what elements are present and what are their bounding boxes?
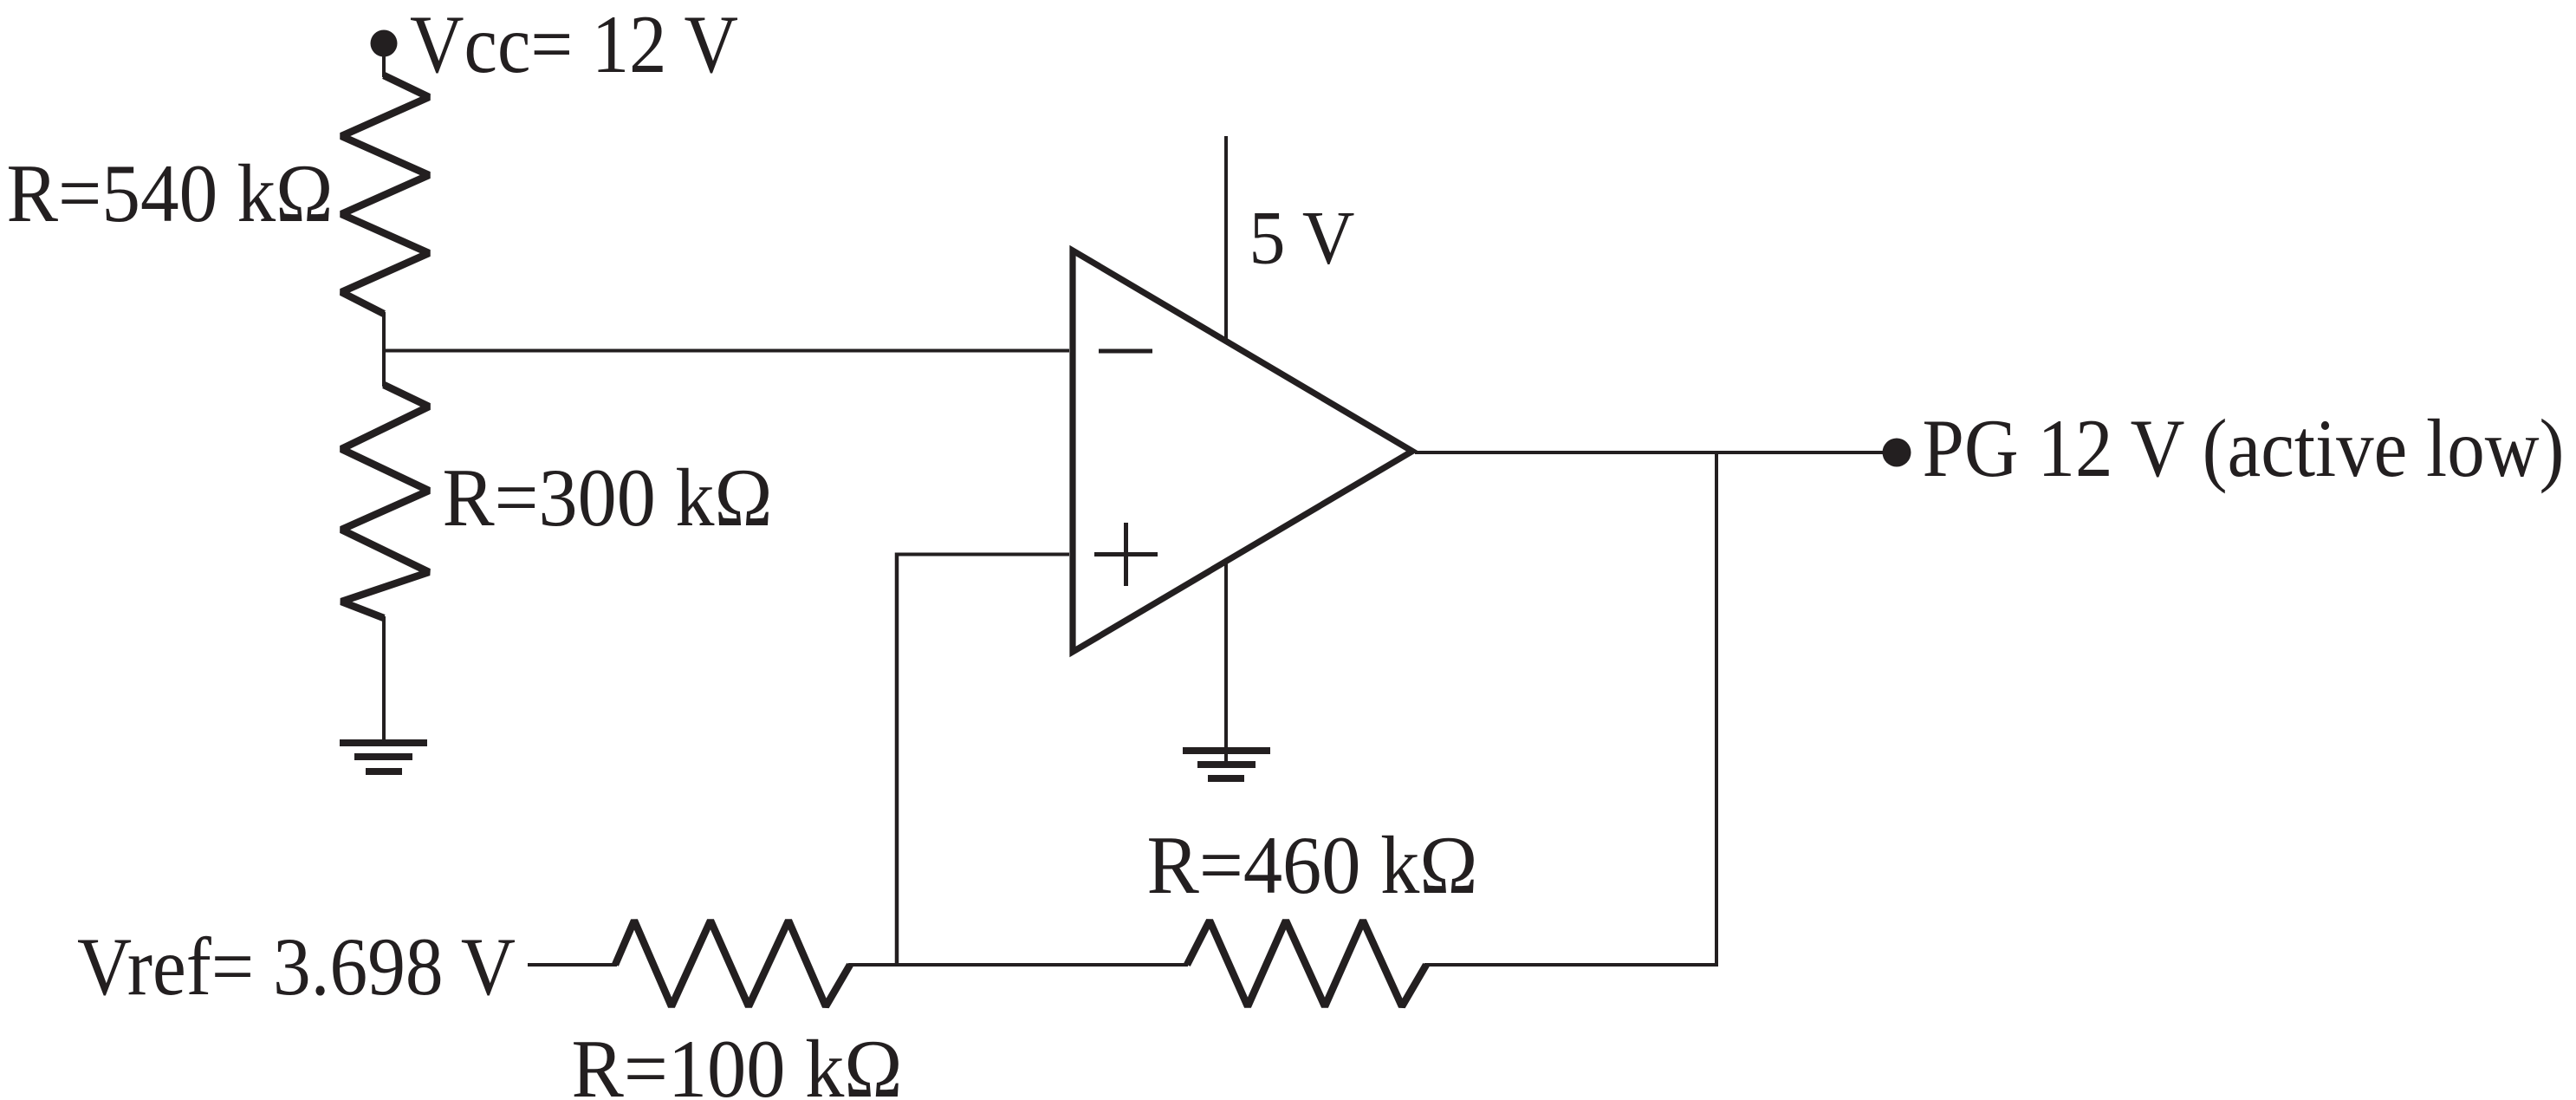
wire R540 bottom through divider node to R300 top <box>382 312 386 387</box>
svg-text:5 V: 5 V <box>1249 197 1355 281</box>
svg-text:R=300 kΩ: R=300 kΩ <box>443 452 773 543</box>
node divider tap: wire to inverting input <box>382 349 1069 353</box>
node PG output dot <box>1883 439 1911 467</box>
svg-text:Vref= 3.698 V: Vref= 3.698 V <box>77 921 516 1012</box>
resistor R=100 kOhm <box>615 921 850 1006</box>
resistor R=300 kOhm <box>341 385 429 618</box>
wire 5V supply to op-amp top <box>1224 136 1228 340</box>
ground (below op-amp) <box>1183 747 1270 782</box>
wire R100 to non-inverting branch node <box>848 963 1188 967</box>
wire op-amp output to PG node <box>1415 451 1889 454</box>
wire non-inverting branch vertical down to feedback node <box>895 553 899 967</box>
op-amp plus sign (non-inverting input) <box>1094 523 1158 586</box>
wire R460 to feedback vertical <box>1424 963 1718 967</box>
svg-text:PG 12 V (active low): PG 12 V (active low) <box>1923 402 2565 494</box>
wire Vref source to R100 <box>528 963 617 967</box>
wire non-inverting input horizontal <box>895 553 1069 557</box>
op-amp U1 comparator triangle <box>1073 251 1412 652</box>
svg-text:R=100 kΩ: R=100 kΩ <box>572 1023 903 1100</box>
resistor R=460 kOhm (feedback) <box>1187 921 1426 1006</box>
wire feedback vertical from output node down <box>1715 451 1718 966</box>
wire R300 bottom to ground <box>382 616 386 742</box>
wire op-amp bottom to ground <box>1224 562 1228 764</box>
op-amp minus sign (inverting input) <box>1099 349 1152 354</box>
resistor R=540 kOhm <box>341 75 429 314</box>
wire Vcc dot to R540 top <box>382 49 386 77</box>
svg-text:Vcc= 12 V: Vcc= 12 V <box>410 0 738 90</box>
node Vcc terminal dot <box>371 30 398 57</box>
svg-text:R=460 kΩ: R=460 kΩ <box>1147 819 1478 911</box>
ground (left, below divider) <box>340 739 427 775</box>
svg-text:R=540 kΩ: R=540 kΩ <box>7 147 334 239</box>
